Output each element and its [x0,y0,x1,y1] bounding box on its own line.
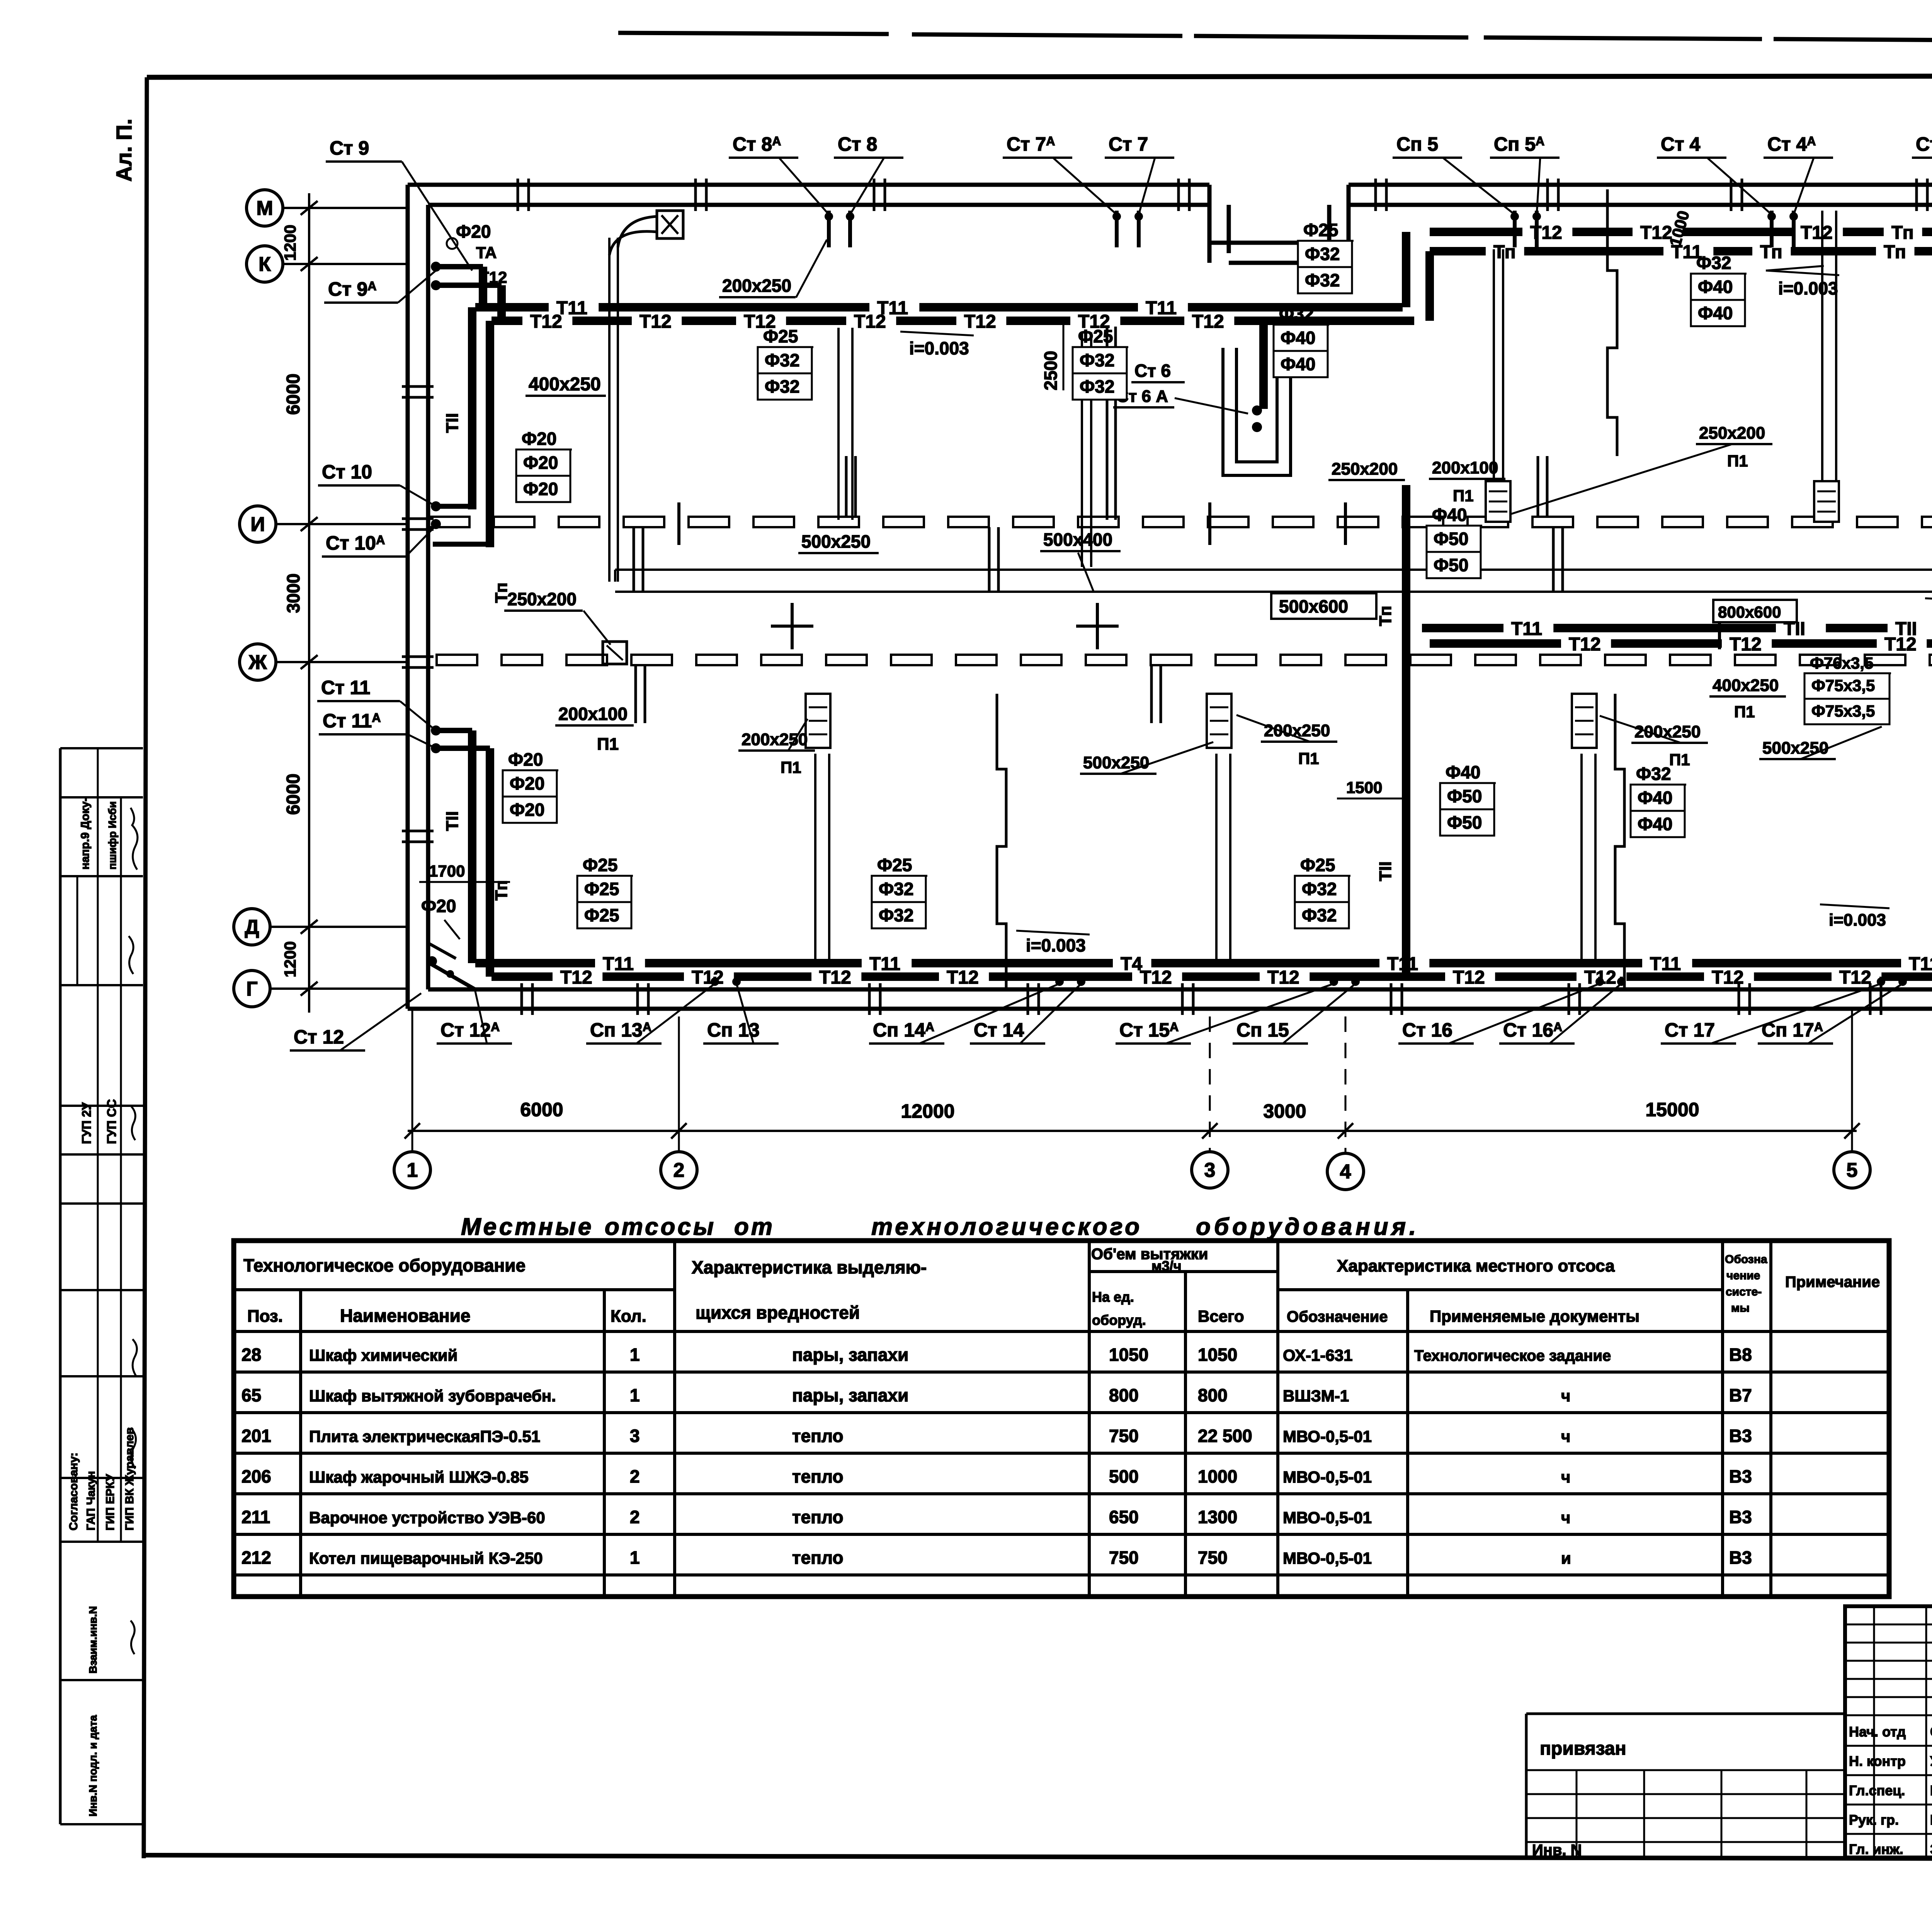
svg-text:200х250: 200х250 [722,276,791,296]
svg-text:Т12: Т12 [854,312,886,332]
svg-text:Обозначение: Обозначение [1287,1308,1388,1325]
svg-text:2: 2 [673,1159,685,1182]
svg-text:ГУП СС: ГУП СС [105,1099,119,1144]
svg-text:мы: мы [1731,1302,1750,1314]
table header texts [243,1246,1880,1328]
bottom wall riser drops [711,977,1907,986]
axis bubble Д [234,909,408,945]
svg-text:750: 750 [1198,1548,1228,1568]
svg-text:6000: 6000 [520,1099,563,1120]
svg-text:Т12: Т12 [639,312,672,332]
axis extension lines bottom [412,1011,1852,1153]
svg-text:Ст 6: Ст 6 [1134,361,1171,381]
500x400 duct drop [1082,332,1091,567]
svg-text:М: М [256,197,273,220]
duct 400x250 vertical top-left [609,238,618,582]
svg-text:6000: 6000 [283,774,304,815]
svg-text:Тп: Тп [1493,242,1516,262]
axis bubble 4 [1327,1153,1364,1190]
riser label St9A [324,271,436,303]
label F20 single bottom-left [421,896,460,939]
riser label at bottom x=1140 [437,991,512,1044]
svg-text:ТII: ТII [443,413,462,433]
riser label at bottom x=4308 [1661,984,1881,1044]
svg-text:ч: ч [1561,1387,1570,1405]
boxed label 800x600 [1713,600,1797,622]
svg-text:ТII: ТII [1376,861,1395,881]
label 500x250 corridor left [798,531,879,553]
svg-text:В3: В3 [1729,1426,1752,1446]
svg-text:Корунова: Корунова [1930,1783,1932,1798]
svg-text:Ф32: Ф32 [1302,879,1337,899]
svg-text:Рук. гр.: Рук. гр. [1849,1812,1899,1828]
svg-text:200х100: 200х100 [558,704,628,724]
svg-text:i=0.003: i=0.003 [1778,278,1838,298]
svg-text:3000: 3000 [1263,1100,1306,1122]
bottom wall pier ticks [522,983,1881,1015]
diameter stack 9: Ф40/Ф50/Ф50 [1427,505,1482,578]
svg-text:Шкаф вытяжной зубоврачебн.: Шкаф вытяжной зубоврачебн. [309,1387,556,1405]
bottom wing partition wall 1 (stepped) [997,694,1006,989]
svg-text:3: 3 [630,1426,640,1446]
svg-text:Сп 14А: Сп 14А [873,1019,934,1041]
svg-text:Уварова: Уварова [1930,1753,1932,1769]
riser label at top x=1896 [729,133,829,215]
svg-text:Ф25: Ф25 [584,905,619,925]
svg-text:4: 4 [1340,1161,1351,1183]
svg-text:Ст 8: Ст 8 [838,133,877,155]
riser label at top x=2605 [1003,133,1117,215]
svg-text:Примечание: Примечание [1785,1273,1880,1290]
bottom wing labels 200x250 P1 [738,719,815,776]
axis bubble 5 [1834,1152,1870,1188]
svg-text:Ф32: Ф32 [1696,253,1731,273]
svg-text:800х600: 800х600 [1718,603,1781,621]
svg-text:Ф32: Ф32 [1305,244,1340,264]
svg-text:Ф32: Ф32 [1302,905,1337,925]
corridor heat main T11 right half [1422,619,1932,639]
P1 duct top wing 1 (500x250) [838,328,852,520]
left strip rotated annotations [67,798,138,1817]
rotated dim 2500 [1041,317,1063,390]
svg-text:200х100: 200х100 [1432,458,1498,477]
stair U-duct [1223,348,1291,475]
axis bubble 3 [1192,1152,1228,1188]
diameter stack 2: Ф25/Ф32/Ф32 [758,326,813,400]
diameter stack 15: Ф32/Ф40/Ф40 [1631,764,1686,837]
svg-text:Т12: Т12 [479,268,507,286]
svg-text:от: от [734,1214,775,1240]
riser label St10 [318,461,436,506]
axis bubble М [247,190,408,226]
wall stubs on dashed rows [634,456,1563,723]
svg-text:1: 1 [407,1159,418,1182]
svg-text:Ст 12: Ст 12 [294,1026,344,1048]
riser label at top x=4958 [1912,133,1932,215]
svg-text:6000: 6000 [283,374,304,415]
labels St6 [1113,361,1248,414]
svg-text:К: К [259,253,271,276]
svg-text:ОХ-1-631: ОХ-1-631 [1283,1346,1353,1364]
svg-text:Т12: Т12 [1140,967,1172,988]
svg-text:1000: 1000 [1198,1466,1237,1486]
diameter stack 11: Ф25/Ф25/Ф25 [577,855,633,928]
svg-text:П1: П1 [1734,703,1755,721]
svg-text:Ст 14: Ст 14 [974,1019,1024,1041]
svg-text:Ст 4: Ст 4 [1661,133,1700,155]
svg-text:Тп: Тп [1884,242,1906,262]
svg-text:Т12: Т12 [1453,967,1485,988]
heat main T12 top wing right run [1430,223,1932,243]
svg-text:15000: 15000 [1645,1099,1699,1120]
svg-text:1500: 1500 [1346,778,1382,797]
diameter stack 14: Ф40/Ф50/Ф50 [1440,762,1496,836]
plan left wall [408,185,428,1009]
svg-text:Ф50: Ф50 [1447,812,1482,833]
diameter stack 3: Ф25/Ф32/Ф32 [1073,326,1128,400]
riser label at bottom x=2897 [1116,984,1334,1044]
slope i=0.003 corridor right [1925,598,1932,622]
left attachment stamp strip [60,748,143,1824]
svg-text:Варочное устройство УЭВ-60: Варочное устройство УЭВ-60 [309,1508,545,1527]
svg-text:i=0.003: i=0.003 [909,338,969,358]
svg-text:400х250: 400х250 [1713,676,1779,695]
riser label St9 [326,137,472,271]
svg-text:28: 28 [241,1345,261,1365]
svg-text:систе-: систе- [1726,1285,1762,1298]
svg-text:П1: П1 [1669,751,1690,769]
riser label St10A [322,526,436,557]
riser label at bottom x=1527 [586,984,715,1044]
svg-text:2: 2 [630,1466,640,1486]
svg-text:привязан: привязан [1540,1738,1626,1759]
svg-text:Т11: Т11 [869,954,900,974]
svg-text:ГИП ЕРКУ: ГИП ЕРКУ [104,1474,117,1531]
svg-text:Киселева: Киселева [1930,1812,1932,1828]
svg-text:65: 65 [241,1385,261,1405]
svg-text:ГИП ВК Журавлев: ГИП ВК Журавлев [123,1427,136,1531]
svg-text:Ф32: Ф32 [1305,270,1340,290]
svg-text:Ф20: Ф20 [456,221,491,242]
corridor supply duct 500x600 lines [615,570,1932,592]
svg-text:П1: П1 [781,758,801,776]
svg-text:Ст 11: Ст 11 [321,677,370,698]
svg-text:1050: 1050 [1109,1345,1148,1365]
top wing partition wall 1 [1107,327,1116,520]
T11 vertical riser left top wing [433,307,475,509]
svg-text:Тп: Тп [1376,606,1395,626]
axis bubble Ж [240,644,408,680]
svg-text:Согласовану:: Согласовану: [67,1452,80,1531]
svg-text:250х200: 250х200 [1699,424,1765,443]
riser label at bottom x=3200 [1233,984,1355,1044]
svg-text:Ф32: Ф32 [765,350,799,370]
svg-text:тепло: тепло [792,1507,844,1527]
riser label St11A [319,710,436,748]
top wall pier ticks [518,179,1927,211]
label 400x250 [526,374,606,396]
svg-text:м3/ч: м3/ч [1151,1258,1182,1274]
table data rows [241,1345,1752,1568]
rotated dim 1000 [1666,209,1693,248]
svg-text:Нач. отд: Нач. отд [1849,1724,1906,1740]
wide diameter stack F76x3,5 [1804,654,1891,724]
heat main T11 top wing right run [1430,242,1932,262]
title block role/name texts [1849,1724,1932,1857]
label F20 single top-left [447,221,491,249]
diameter stack 12: Ф25/Ф32/Ф32 [872,855,927,928]
svg-text:В3: В3 [1729,1548,1752,1568]
riser label at top x=3614 [1393,133,1515,215]
diameter stack 10: Ф20/Ф20/Ф20 [503,749,558,823]
svg-text:Инв. N: Инв. N [1532,1842,1582,1859]
svg-text:Т11: Т11 [1909,954,1932,974]
svg-text:Гл. инж.: Гл. инж. [1849,1841,1903,1857]
riser label at top x=3866 [1490,133,1560,215]
svg-text:Ал. П.: Ал. П. [112,119,136,182]
svg-text:Шкаф жарочный ШЖЭ-0.85: Шкаф жарочный ШЖЭ-0.85 [309,1468,529,1486]
sheet frame top [147,76,1932,77]
svg-text:200х250: 200х250 [742,730,808,749]
dim 1700 [419,862,510,882]
svg-text:Характеристика местного отсоса: Характеристика местного отсоса [1337,1256,1615,1275]
svg-text:Т12: Т12 [1712,967,1744,988]
svg-text:500х400: 500х400 [1043,529,1112,550]
svg-text:пары, запахи: пары, запахи [792,1385,908,1405]
handwritten title: Local exhausts from process equipment [461,1214,1419,1240]
svg-text:Ф25: Ф25 [584,879,619,899]
svg-text:Технологическое оборудование: Технологическое оборудование [243,1255,526,1275]
svg-text:Тп: Тп [492,880,511,901]
svg-text:Наименование: Наименование [340,1306,470,1326]
heat main T12 top wing left run [492,312,1414,332]
svg-text:ч: ч [1561,1508,1570,1527]
svg-text:Кол.: Кол. [611,1307,646,1326]
svg-text:Ф25: Ф25 [877,855,912,875]
svg-text:Стражнецкие: Стражнецкие [1930,1724,1932,1740]
svg-text:5: 5 [1847,1159,1858,1182]
svg-text:i=0.003: i=0.003 [1829,911,1886,930]
corridor dashed wall row (axis Zh) [437,655,1932,665]
svg-text:оборудования.: оборудования. [1196,1214,1419,1240]
svg-text:1700: 1700 [429,862,465,880]
svg-text:напр.9 Доку-: напр.9 Доку- [79,798,92,870]
heat main T11 top wing left run [475,298,1403,318]
svg-text:Т12: Т12 [530,312,562,332]
svg-text:ГАП Чакун: ГАП Чакун [85,1471,97,1531]
svg-text:500: 500 [1109,1466,1139,1486]
svg-text:1: 1 [630,1548,640,1568]
svg-text:Т12: Т12 [964,312,996,332]
svg-text:Ф25: Ф25 [1078,326,1113,346]
svg-text:Плита электрическаяПЭ-0.51: Плита электрическаяПЭ-0.51 [309,1427,540,1445]
diameter stack 1: Ф20/Ф20/Ф20 [516,429,572,502]
St9a wall connection stubs [431,243,507,321]
svg-text:Ф32: Ф32 [1080,376,1114,397]
svg-text:Т11: Т11 [603,954,634,974]
riser label at bottom x=1830 [703,984,779,1044]
heat main T11 bottom wing run [475,954,1932,974]
label 400x250 P1 right [1709,676,1786,721]
svg-text:Технологическое задание: Технологическое задание [1414,1347,1611,1364]
svg-text:Ф20: Ф20 [510,773,544,793]
corridor damper box left [603,642,627,664]
svg-text:212: 212 [241,1548,271,1568]
svg-text:Ф25: Ф25 [1303,220,1338,240]
svg-text:Ф40: Ф40 [1698,303,1733,323]
diameter stack 6: Ф32/Ф40/Ф40 [1691,253,1747,326]
svg-text:12000: 12000 [901,1100,954,1122]
label 500x400 [1040,529,1121,591]
T12 vertical riser left top wing [433,321,511,603]
label 200x250 top-left elbow [719,240,827,298]
svg-text:В7: В7 [1729,1385,1752,1405]
svg-text:Ст 9: Ст 9 [330,137,369,159]
svg-text:800: 800 [1109,1385,1139,1405]
slope i=0.003 bottom right [1820,904,1889,930]
corridor main vertical riser [1376,485,1406,978]
svg-text:Сп 15: Сп 15 [1236,1019,1289,1041]
svg-text:Т12: Т12 [1730,634,1762,655]
svg-text:пары, запахи: пары, запахи [792,1345,908,1365]
svg-text:250х200: 250х200 [1332,460,1398,478]
riser label at top x=2869 [1105,133,1174,215]
axis bubble 2 [661,1152,697,1188]
svg-text:Ф25: Ф25 [583,855,617,875]
svg-text:Д: Д [245,916,259,938]
bottom wing partition wall 2 (stepped) [1615,694,1624,989]
svg-text:Т12: Т12 [1801,223,1833,243]
svg-text:Всего: Всего [1198,1307,1244,1325]
svg-text:Ф20: Ф20 [523,479,558,499]
svg-text:Шкаф химический: Шкаф химический [309,1346,457,1364]
svg-text:Ф20: Ф20 [421,896,456,916]
equipment table grid [234,1241,1889,1597]
svg-text:ч: ч [1561,1427,1570,1445]
svg-text:Т12: Т12 [692,967,724,988]
riser label at bottom x=3629 [1398,984,1600,1044]
svg-text:Т4: Т4 [1121,954,1142,974]
T11 vertical riser left bottom wing [443,730,472,963]
svg-text:МВО-0,5-01: МВО-0,5-01 [1283,1427,1372,1445]
svg-text:И: И [250,513,265,536]
svg-text:Характеристика выделяю-: Характеристика выделяю- [692,1257,927,1277]
svg-text:технологического: технологического [871,1214,1142,1240]
slope i=0.003 bottom mid [1016,931,1090,955]
svg-text:250х200: 250х200 [507,589,577,609]
svg-text:Т12: Т12 [819,967,851,988]
svg-text:Т12: Т12 [1569,634,1601,655]
axis bubble К [247,246,408,282]
diameter stack 5: Ф32/Ф40/Ф40 [1274,304,1329,377]
top wall riser stubs [825,211,1798,247]
riser label at bottom x=4559 [1758,984,1903,1044]
P1 duct top wing 3 [1814,211,1839,522]
svg-text:2500: 2500 [1041,351,1061,390]
svg-text:Ст 16: Ст 16 [1402,1019,1452,1041]
svg-text:В3: В3 [1729,1507,1752,1527]
svg-text:ГУП 2У: ГУП 2У [80,1102,94,1144]
svg-text:Ст 17: Ст 17 [1665,1019,1715,1041]
left dimension line [301,193,318,1013]
svg-text:Сп 13А: Сп 13А [590,1019,651,1041]
riser label at top x=4298 [1657,133,1772,215]
bottom left corner riser St12 [427,943,475,989]
axis bubble И [240,506,408,542]
svg-text:Поз.: Поз. [247,1307,283,1326]
svg-text:Ф32: Ф32 [1636,764,1671,784]
svg-text:Тп: Тп [1891,223,1914,243]
top wing run connector verticals [1406,232,1430,321]
svg-text:Ф40: Ф40 [1446,762,1480,782]
svg-text:Ф20: Ф20 [508,749,543,770]
svg-text:оборуд.: оборуд. [1092,1312,1146,1328]
riser label at top x=4574 [1764,133,1833,215]
svg-text:МВО-0,5-01: МВО-0,5-01 [1283,1549,1372,1567]
slope i=0.003 top left [900,332,974,358]
svg-text:Ф50: Ф50 [1434,529,1468,549]
svg-text:Ст 7: Ст 7 [1109,133,1148,155]
plan outer top wall [408,185,1932,263]
T12 vertical riser left bottom wing [490,748,511,977]
svg-text:Гл.спец.: Гл.спец. [1849,1783,1905,1798]
riser label St11 [317,677,436,730]
elbow duct with damper box top-left [609,211,683,255]
title block outer [1845,1606,1932,1857]
svg-text:Ф76х3,5: Ф76х3,5 [1810,654,1873,672]
svg-text:1200: 1200 [281,941,299,977]
label 500x250 bottom mid [1080,742,1213,774]
svg-text:тепло: тепло [792,1426,844,1446]
svg-text:и: и [1561,1549,1571,1567]
svg-text:Ф32: Ф32 [879,905,913,925]
svg-text:МВО-0,5-01: МВО-0,5-01 [1283,1468,1372,1486]
title block small grid [1845,1606,1932,1857]
svg-text:1: 1 [630,1345,640,1365]
svg-text:Т11: Т11 [1511,619,1542,639]
corridor labels 250x200 / 200x100 / 250x200 / 250x200 [1328,460,1405,480]
svg-text:отсосы: отсосы [605,1214,716,1240]
svg-text:1: 1 [630,1385,640,1405]
diameter stack 13: Ф25/Ф32/Ф32 [1295,855,1350,928]
svg-text:Ф20: Ф20 [522,429,556,449]
svg-text:Т12: Т12 [1192,312,1224,332]
bottom dimension texts [520,1099,1699,1122]
svg-text:400х250: 400х250 [529,374,601,395]
svg-text:500х250: 500х250 [1762,739,1828,758]
corridor heat main T12 right half [1430,634,1932,655]
svg-text:201: 201 [241,1426,271,1446]
plan bottom wall [408,989,1932,1009]
label 250x200 left [504,589,611,645]
svg-text:500х250: 500х250 [1083,753,1149,772]
left dimension texts [281,225,304,977]
svg-text:500х250: 500х250 [801,531,871,552]
svg-text:3: 3 [1204,1159,1216,1182]
P1 duct bottom wing 3 [1572,694,1597,963]
svg-text:Т12: Т12 [1267,967,1299,988]
corridor dashed wall row (axis I) [429,517,1932,527]
top wing partition wall 2 (stepped) [1607,189,1617,456]
St6 riser connector [1252,321,1264,432]
svg-text:211: 211 [241,1507,270,1527]
boxed label 500x600 [1271,593,1376,619]
svg-text:Ст 3А: Ст 3А [1916,133,1932,155]
svg-text:Ф40: Ф40 [1638,788,1672,808]
svg-text:Зуанко: Зуанко [1930,1841,1932,1857]
svg-text:Ф20: Ф20 [523,453,558,473]
svg-text:МВО-0,5-01: МВО-0,5-01 [1283,1508,1372,1527]
